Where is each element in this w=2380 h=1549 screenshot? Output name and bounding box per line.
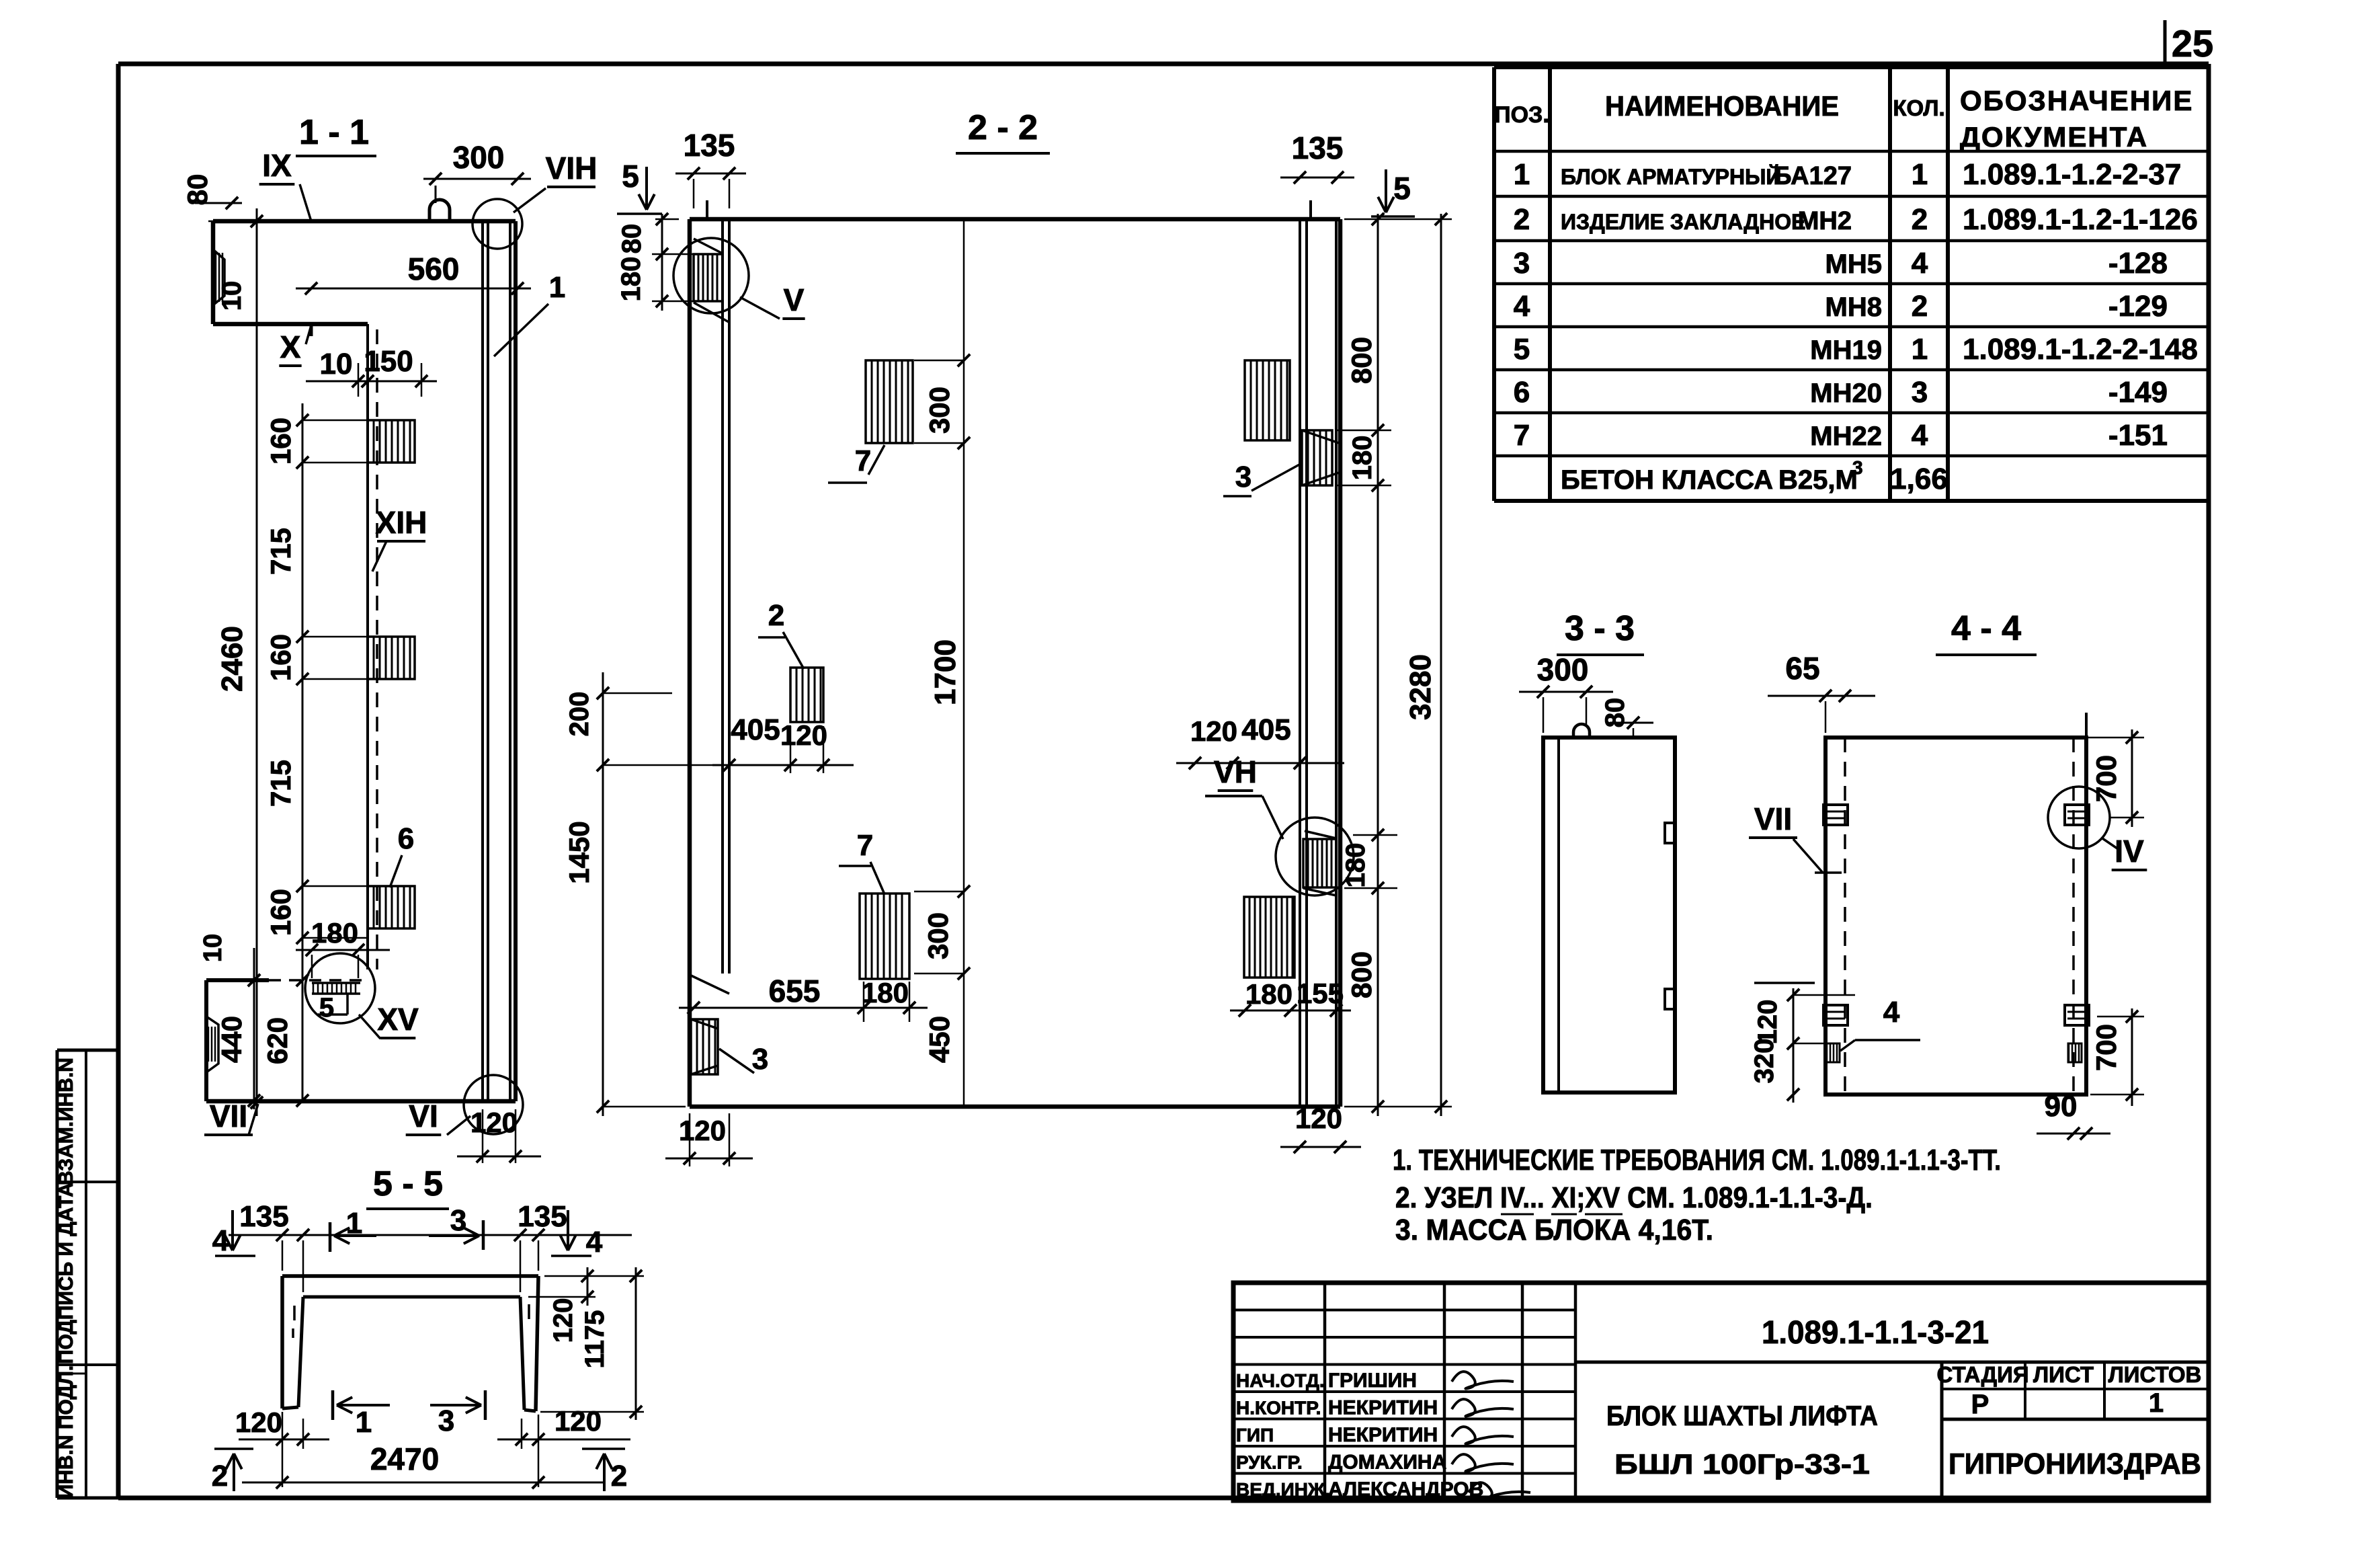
svg-text:180: 180 xyxy=(1341,843,1370,888)
svg-text:1,66: 1,66 xyxy=(1890,463,1948,495)
svg-text:2: 2 xyxy=(768,599,784,632)
svg-text:120: 120 xyxy=(555,1405,602,1437)
svg-text:-129: -129 xyxy=(2108,290,2168,323)
svg-text:200: 200 xyxy=(565,692,594,737)
svg-text:5: 5 xyxy=(1514,333,1530,366)
svg-text:90: 90 xyxy=(2045,1090,2078,1123)
svg-text:ДОМАХИНА: ДОМАХИНА xyxy=(1328,1451,1446,1473)
svg-text:2460: 2460 xyxy=(216,626,249,692)
svg-text:10: 10 xyxy=(199,934,227,962)
svg-text:620: 620 xyxy=(261,1017,293,1064)
svg-text:ГИП: ГИП xyxy=(1236,1425,1274,1445)
svg-text:МН2: МН2 xyxy=(1798,207,1852,235)
svg-text:4 - 4: 4 - 4 xyxy=(1951,609,2021,648)
svg-text:440: 440 xyxy=(216,1016,247,1063)
svg-text:7: 7 xyxy=(1514,419,1530,452)
svg-text:405: 405 xyxy=(731,713,780,746)
svg-text:4: 4 xyxy=(586,1226,603,1259)
svg-text:ГРИШИН: ГРИШИН xyxy=(1328,1369,1417,1392)
svg-text:3. МАССА БЛОКА 4,16Т.: 3. МАССА БЛОКА 4,16Т. xyxy=(1395,1214,1713,1246)
svg-text:3 - 3: 3 - 3 xyxy=(1565,609,1635,648)
svg-text:БШЛ 100Гр-33-1: БШЛ 100Гр-33-1 xyxy=(1614,1448,1870,1480)
svg-text:ВЕД.ИНЖ.: ВЕД.ИНЖ. xyxy=(1236,1479,1330,1500)
svg-text:7: 7 xyxy=(857,829,873,862)
svg-text:VII: VII xyxy=(210,1099,247,1134)
svg-text:МН20: МН20 xyxy=(1810,379,1882,408)
svg-text:VI: VI xyxy=(409,1099,438,1134)
svg-text:НАИМЕНОВАНИЕ: НАИМЕНОВАНИЕ xyxy=(1605,90,1839,122)
svg-text:6: 6 xyxy=(398,822,414,855)
svg-text:2470: 2470 xyxy=(370,1441,439,1476)
svg-text:180: 180 xyxy=(1245,978,1292,1010)
svg-text:ЛИСТ: ЛИСТ xyxy=(2033,1362,2094,1387)
svg-text:1175: 1175 xyxy=(580,1310,610,1369)
svg-text:3: 3 xyxy=(1514,247,1530,280)
svg-text:КОЛ.: КОЛ. xyxy=(1893,95,1944,120)
svg-text:-149: -149 xyxy=(2108,376,2168,409)
svg-text:БЛОК ШАХТЫ ЛИФТА: БЛОК ШАХТЫ ЛИФТА xyxy=(1606,1400,1878,1431)
svg-text:РУК.ГР.: РУК.ГР. xyxy=(1236,1452,1303,1472)
svg-text:800: 800 xyxy=(1346,951,1377,998)
svg-text:135: 135 xyxy=(684,128,735,163)
svg-text:5: 5 xyxy=(319,993,334,1023)
svg-text:120: 120 xyxy=(548,1298,578,1343)
svg-text:4: 4 xyxy=(1912,247,1928,280)
svg-text:135: 135 xyxy=(239,1200,288,1233)
svg-text:3: 3 xyxy=(1912,376,1928,409)
svg-text:320: 320 xyxy=(1750,1039,1779,1084)
svg-text:1. ТЕХНИЧЕСКИЕ ТРЕБОВАНИЯ СМ: 1. ТЕХНИЧЕСКИЕ ТРЕБОВАНИЯ СМ. 1.089.1-1.… xyxy=(1393,1144,2001,1177)
svg-text:1: 1 xyxy=(1912,158,1928,191)
svg-text:120: 120 xyxy=(679,1115,726,1146)
svg-text:120: 120 xyxy=(1295,1103,1342,1134)
svg-text:НЕКРИТИН: НЕКРИТИН xyxy=(1328,1424,1438,1446)
svg-text:ЛИСТОВ: ЛИСТОВ xyxy=(2108,1362,2202,1387)
svg-text:ОБОЗНАЧЕНИЕ: ОБОЗНАЧЕНИЕ xyxy=(1960,85,2193,116)
svg-text:160: 160 xyxy=(265,889,296,936)
svg-text:XIH: XIH xyxy=(376,505,427,540)
svg-text:-128: -128 xyxy=(2108,247,2168,280)
svg-text:120: 120 xyxy=(235,1406,282,1438)
svg-text:3: 3 xyxy=(1852,457,1863,478)
svg-text:1450: 1450 xyxy=(563,821,595,883)
svg-text:ИНВ.N ПОДЛ.: ИНВ.N ПОДЛ. xyxy=(55,1365,77,1499)
svg-text:4: 4 xyxy=(1883,996,1900,1029)
svg-text:800: 800 xyxy=(1346,337,1377,384)
svg-text:НАЧ.ОТД.: НАЧ.ОТД. xyxy=(1236,1370,1325,1391)
svg-text:ВЗАМ.ИНВ.N: ВЗАМ.ИНВ.N xyxy=(55,1058,77,1185)
svg-text:XV: XV xyxy=(377,1002,419,1037)
svg-text:1.089.1-1.2-2-148: 1.089.1-1.2-2-148 xyxy=(1963,333,2198,366)
svg-text:135: 135 xyxy=(1292,130,1344,165)
svg-text:VII: VII xyxy=(1754,801,1792,836)
svg-text:65: 65 xyxy=(1785,651,1819,686)
svg-text:5 - 5: 5 - 5 xyxy=(373,1164,443,1203)
svg-text:655: 655 xyxy=(769,974,821,1008)
svg-text:БЛОК АРМАТУРНЫЙ: БЛОК АРМАТУРНЫЙ xyxy=(1561,165,1781,189)
svg-text:120: 120 xyxy=(1190,715,1237,747)
svg-text:1700: 1700 xyxy=(929,639,962,705)
svg-text:715: 715 xyxy=(265,760,296,807)
svg-text:10: 10 xyxy=(217,281,247,311)
svg-text:НЕКРИТИН: НЕКРИТИН xyxy=(1328,1396,1438,1419)
svg-text:4: 4 xyxy=(1514,290,1530,323)
svg-text:3280: 3280 xyxy=(1404,654,1437,720)
svg-text:1: 1 xyxy=(356,1406,372,1439)
svg-text:V: V xyxy=(784,282,805,317)
svg-text:180: 180 xyxy=(1348,436,1377,481)
svg-text:1: 1 xyxy=(1912,333,1928,366)
svg-text:2: 2 xyxy=(1514,203,1530,236)
svg-text:300: 300 xyxy=(922,912,954,959)
svg-text:10: 10 xyxy=(320,348,353,381)
svg-text:700: 700 xyxy=(2090,1024,2122,1071)
svg-text:715: 715 xyxy=(265,528,296,575)
svg-text:1.089.1-1.2-1-126: 1.089.1-1.2-1-126 xyxy=(1963,203,2198,236)
svg-text:1: 1 xyxy=(1514,158,1530,191)
svg-text:160: 160 xyxy=(265,634,296,681)
svg-text:БЕТОН КЛАССА: БЕТОН КЛАССА xyxy=(1561,465,1773,495)
svg-text:450: 450 xyxy=(924,1016,955,1063)
svg-text:Н.КОНТР.: Н.КОНТР. xyxy=(1236,1397,1321,1418)
svg-text:25: 25 xyxy=(2172,22,2213,65)
svg-text:1.089.1-1.1-3-21: 1.089.1-1.1-3-21 xyxy=(1762,1315,1989,1351)
svg-text:160: 160 xyxy=(265,418,296,465)
svg-text:120: 120 xyxy=(780,719,827,751)
svg-text:IV: IV xyxy=(2115,834,2144,869)
svg-text:VIH: VIH xyxy=(546,151,598,186)
svg-text:2: 2 xyxy=(1912,290,1928,323)
svg-text:ИЗДЕЛИЕ ЗАКЛАДНОЕ: ИЗДЕЛИЕ ЗАКЛАДНОЕ xyxy=(1561,210,1805,234)
svg-text:3: 3 xyxy=(450,1204,466,1237)
svg-text:80: 80 xyxy=(617,224,647,254)
svg-text:180: 180 xyxy=(862,977,909,1008)
svg-text:1 - 1: 1 - 1 xyxy=(299,113,369,152)
svg-text:МН22: МН22 xyxy=(1810,422,1882,451)
svg-text:ДОКУМЕНТА: ДОКУМЕНТА xyxy=(1960,121,2148,153)
svg-text:300: 300 xyxy=(1537,652,1589,687)
svg-text:120: 120 xyxy=(470,1107,518,1138)
svg-text:2 - 2: 2 - 2 xyxy=(968,108,1038,147)
svg-text:2. УЗЕЛ IV... XI;XV СМ. 1.08: 2. УЗЕЛ IV... XI;XV СМ. 1.089.1-1.1-3-Д. xyxy=(1395,1181,1873,1214)
svg-text:МН8: МН8 xyxy=(1825,292,1882,322)
svg-text:180: 180 xyxy=(616,257,646,302)
svg-text:155: 155 xyxy=(1297,978,1344,1009)
svg-text:700: 700 xyxy=(2090,755,2122,802)
svg-text:ГИПРОНИИЗДРАВ: ГИПРОНИИЗДРАВ xyxy=(1948,1447,2201,1480)
svg-text:135: 135 xyxy=(518,1200,567,1233)
svg-text:МН5: МН5 xyxy=(1825,249,1882,279)
svg-text:4: 4 xyxy=(1912,419,1928,452)
svg-text:6: 6 xyxy=(1514,376,1530,409)
svg-text:405: 405 xyxy=(1241,713,1290,746)
svg-text:3: 3 xyxy=(1235,461,1251,493)
svg-text:ПОЗ.: ПОЗ. xyxy=(1494,102,1549,128)
svg-text:ПОДПИСЬ И ДАТА: ПОДПИСЬ И ДАТА xyxy=(55,1183,77,1364)
svg-text:Р: Р xyxy=(1971,1390,1989,1419)
svg-text:120: 120 xyxy=(1753,1000,1782,1045)
svg-text:5: 5 xyxy=(622,159,639,194)
svg-text:2: 2 xyxy=(1912,203,1928,236)
svg-text:МН19: МН19 xyxy=(1810,335,1882,365)
svg-text:2: 2 xyxy=(212,1460,228,1493)
svg-text:5: 5 xyxy=(1393,171,1411,206)
svg-text:БА127: БА127 xyxy=(1773,162,1852,190)
svg-text:АЛЕКСАНДРОВ: АЛЕКСАНДРОВ xyxy=(1328,1478,1483,1501)
svg-text:300: 300 xyxy=(924,387,955,434)
svg-text:В25,М: В25,М xyxy=(1778,465,1858,495)
svg-text:1: 1 xyxy=(2149,1388,2164,1418)
svg-text:IX: IX xyxy=(262,148,292,183)
svg-text:300: 300 xyxy=(453,140,505,175)
svg-text:3: 3 xyxy=(752,1043,768,1076)
svg-text:150: 150 xyxy=(364,345,413,378)
svg-text:1.089.1-1.2-2-37: 1.089.1-1.2-2-37 xyxy=(1963,158,2181,191)
svg-text:-151: -151 xyxy=(2108,419,2168,452)
svg-text:2: 2 xyxy=(611,1460,627,1493)
svg-text:X: X xyxy=(280,329,301,364)
svg-text:1: 1 xyxy=(549,271,565,304)
svg-text:80: 80 xyxy=(181,174,213,206)
svg-text:180: 180 xyxy=(311,917,358,949)
svg-text:СТАДИЯ: СТАДИЯ xyxy=(1936,1362,2028,1387)
svg-text:560: 560 xyxy=(408,251,460,286)
svg-text:3: 3 xyxy=(438,1404,454,1437)
